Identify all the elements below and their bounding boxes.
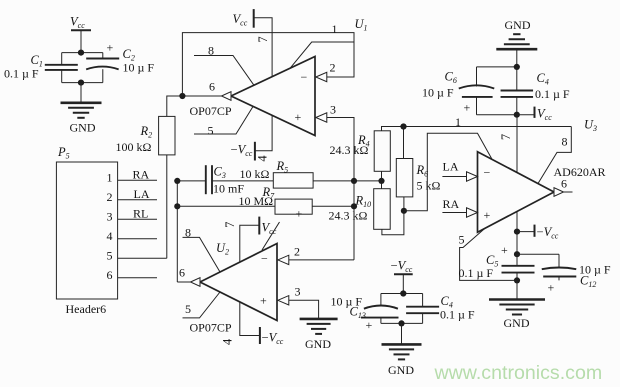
wire R4 top to rail A [382,115,572,131]
svg-text:4: 4 [107,229,113,243]
wire R2 top to U1 output node [167,96,183,116]
svg-text:10 MΩ: 10 MΩ [239,194,274,208]
svg-text:OP07CP: OP07CP [190,321,232,335]
U2 pin 1 stub [262,222,280,250]
capacitor C1 0.1uF [4,53,78,83]
U1 pin 8 stub [194,44,254,86]
wire R6 top stub [403,127,405,159]
svg-text:RA: RA [133,168,150,182]
pin1 mark under R7 [296,207,303,221]
U1 pin 1 stub [290,42,354,68]
wire header pin1 RA [118,168,157,182]
U3 output pin 6 arrow [554,177,573,197]
svg-text:U1: U1 [355,17,368,33]
U2 output pin 6 arrow [177,266,200,287]
svg-text:24.3 kΩ: 24.3 kΩ [330,143,369,157]
watermark [434,362,603,384]
U3 input LA [442,159,477,181]
wire header pin2 LA [118,187,157,201]
svg-text:8: 8 [185,225,191,239]
svg-text:+: + [295,110,302,124]
svg-text:0.1 µ F: 0.1 µ F [535,87,570,101]
ground GND (U2 pin3) [300,319,338,351]
svg-text:10 µ F: 10 µ F [422,85,454,99]
U1 pin 4 wire and power -Vcc [231,115,273,161]
svg-text:OP07CP: OP07CP [190,104,232,118]
connector P5 Header6 [56,145,117,316]
node C13/C14 bottom rail [381,320,423,326]
U2 pin 8 stub [183,225,221,272]
capacitor C6 10uF [422,67,494,115]
svg-text:−Vcc: −Vcc [391,259,413,275]
svg-text:3: 3 [330,103,336,117]
svg-text:U2: U2 [216,241,229,257]
svg-text:6: 6 [179,266,185,280]
svg-text:R10: R10 [355,193,372,209]
capacitor C12 10uF [517,254,611,294]
svg-text:Vcc: Vcc [233,12,248,28]
resistor R2 100k [116,116,176,154]
U3 pin 4 wire and power -Vcc [514,211,559,254]
U2 pin 7 wire and power Vcc [223,217,277,263]
svg-text:5: 5 [107,249,113,263]
svg-text:−: − [301,70,308,84]
wire U1 pin3 down to feedback node [327,118,355,260]
svg-text:C4: C4 [537,71,549,87]
node C6/C4 bottom rail and power Vcc [477,106,553,122]
U1 pin 2 arrow [316,61,336,82]
svg-text:5: 5 [208,124,214,138]
svg-text:+: + [296,207,303,221]
svg-text:8: 8 [208,44,214,58]
ground GND (below U3) [489,277,545,330]
wire R7 rail [177,203,357,209]
svg-text:+: + [366,318,373,332]
svg-text:6: 6 [561,177,567,191]
node C13/C14 top rail [381,290,423,296]
svg-text:LA: LA [443,159,459,173]
svg-text:5 kΩ: 5 kΩ [417,179,441,193]
resistor R6 5k [396,159,440,197]
svg-text:+: + [107,41,114,55]
svg-text:24.3 kΩ: 24.3 kΩ [329,208,368,222]
U3 pin 8 stub from rail A [538,127,571,184]
U2 pin 3 arrow and wire to ground [278,285,319,319]
svg-text:GND: GND [505,18,531,32]
wire R5 to mid node [313,178,357,184]
power Vcc (top-left) [70,15,91,31]
svg-text:1: 1 [455,115,461,129]
U1 output pin 6 arrow [209,80,231,101]
svg-text:C3: C3 [214,164,226,180]
svg-text:RA: RA [443,197,460,211]
svg-text:+: + [464,101,471,115]
wire mid rail to R4/R10 junction [354,171,385,188]
svg-text:2: 2 [107,190,113,204]
svg-text:3: 3 [295,285,301,299]
svg-text:−Vcc: −Vcc [231,143,253,159]
wire Vcc to cap rail [80,30,82,52]
svg-text:R6: R6 [416,163,429,179]
U2 pin 4 wire and power -Vcc [220,302,283,346]
svg-text:R5: R5 [276,159,289,175]
svg-text:Vcc: Vcc [262,221,277,237]
svg-text:7: 7 [499,134,513,140]
U1 pin 3 arrow [316,103,336,123]
svg-text:+: + [501,243,508,257]
svg-text:P5: P5 [57,145,70,161]
svg-text:10 µ F: 10 µ F [123,61,155,75]
svg-text:R2: R2 [140,124,153,140]
svg-text:1: 1 [107,171,113,185]
wire header pin4 [118,238,157,240]
power -Vcc (bottom middle) [391,259,413,294]
svg-text:+: + [260,293,267,307]
svg-text:C6: C6 [445,70,457,86]
ground GND (bottom middle) [382,323,422,377]
svg-text:6: 6 [209,80,215,94]
resistor R4 24.3k [330,131,391,172]
op-amp U2 OP07CP triangle [190,241,278,335]
svg-text:GND: GND [70,121,96,135]
wire header pin3 RL [118,207,157,221]
svg-text:0.1 µ F: 0.1 µ F [459,266,494,280]
wire R6 bottom to U3 pin 1 [404,133,492,211]
svg-text:2: 2 [330,61,336,75]
svg-text:−Vcc: −Vcc [262,331,284,347]
U3 input RA [442,197,477,217]
U3 pin 7 wire [499,115,517,173]
svg-text:3: 3 [107,210,113,224]
svg-text:−: − [484,165,491,179]
svg-text:U3: U3 [584,118,597,134]
svg-text:0.1 µ F: 0.1 µ F [440,307,475,321]
svg-text:8: 8 [562,135,568,149]
U2 pin 2 arrow and wire [278,245,354,265]
capacitor C4 0.1uF [501,67,570,115]
svg-text:LA: LA [134,187,150,201]
svg-text:+: + [484,208,491,222]
resistor R5 10k [240,159,314,188]
capacitor C5 0.1uF [459,243,535,281]
svg-text:5: 5 [185,302,191,316]
resistor R10 24.3k [329,189,391,230]
svg-text:GND: GND [504,316,530,330]
svg-text:5: 5 [459,233,465,247]
svg-text:Vcc: Vcc [537,106,552,122]
svg-text:GND: GND [305,337,331,351]
op-amp U1 OP07CP triangle [190,17,368,136]
ground GND (top-right inverted) [496,18,537,67]
U3 pin 5 wire to ground rail [459,228,518,280]
svg-text:2: 2 [294,245,300,259]
svg-text:GND: GND [388,363,414,377]
svg-text:4: 4 [220,338,234,345]
wire header pin6 [118,277,157,279]
capacitor C2 10uF [86,41,154,83]
wire U1 feedback loop to pin 2 [182,22,354,96]
wire header pin5 [118,257,167,259]
node C6/C4 top rail [477,64,520,70]
svg-text:6: 6 [107,268,113,282]
svg-text:10 kΩ: 10 kΩ [240,167,270,181]
wire R2 bottom to header pin5 [166,155,168,258]
svg-text:RL: RL [133,207,148,221]
capacitor C13 10uF [331,294,399,333]
svg-text:0.1 µ F: 0.1 µ F [4,66,39,80]
U1 pin 5 stub [194,107,253,138]
svg-text:www.cntronics.com: www.cntronics.com [434,362,603,384]
svg-text:C13: C13 [350,304,366,320]
wire U1 output to node [179,93,221,99]
svg-text:4: 4 [256,155,270,162]
svg-text:100 kΩ: 100 kΩ [116,140,152,154]
node top rail of C1/C2 [62,50,103,56]
U1 pin 7 wire and power Vcc [233,9,273,77]
resistor R7 10M [239,185,313,214]
wire R10 bottom loop to R6 bottom [382,197,407,235]
op-amp U3 AD620AR triangle [478,118,606,233]
svg-text:Header6: Header6 [66,302,107,316]
svg-text:7: 7 [256,36,270,42]
ground GND (top-left) [61,83,102,135]
node bottom rail of C1/C2 [62,80,103,86]
svg-text:+: + [548,280,555,294]
svg-text:−Vcc: −Vcc [537,225,559,241]
capacitor C14 0.1uF [406,294,475,324]
node U2 output riser top [174,178,180,282]
capacitor C3 10mF [177,164,273,195]
svg-text:1: 1 [332,22,338,36]
svg-text:−: − [261,252,268,266]
svg-text:Vcc: Vcc [70,15,85,31]
U2 pin 5 stub [183,292,221,318]
svg-text:7: 7 [223,222,237,228]
